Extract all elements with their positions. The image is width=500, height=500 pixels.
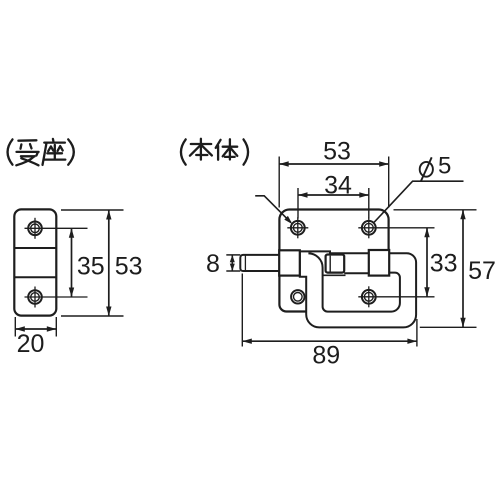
extension line hole bottom (35 dim)	[25, 296, 88, 298]
extension line 57 bottom	[420, 326, 477, 328]
extension line 89 left	[241, 274, 243, 347]
extension line 20 left	[14, 317, 16, 337]
paren right of ukeza	[68, 139, 74, 164]
kanji ZA (seat)	[43, 139, 66, 165]
leader line to top-left hole	[255, 196, 292, 224]
svg-text:8: 8	[206, 250, 220, 278]
extension line 20 right	[55, 317, 57, 337]
dimension line 53 top	[279, 161, 389, 166]
extension line bottom-right hole (33 dim bottom)	[358, 296, 434, 298]
phi symbol	[420, 157, 433, 181]
leader line phi5 to top-right hole	[374, 181, 463, 222]
dimension arrows 8	[230, 255, 235, 271]
dimension texts	[17, 138, 496, 370]
extension line 53 left	[278, 157, 280, 208]
handle ring outer	[300, 251, 416, 327]
handle ring opening	[308, 253, 400, 311]
svg-text:34: 34	[324, 172, 352, 200]
extension line plate top (53 dim)	[61, 209, 124, 211]
dimension line 20	[15, 326, 56, 331]
extension line plate bottom (53 dim)	[61, 315, 124, 317]
extension line 34 left	[297, 188, 299, 219]
svg-text:53: 53	[323, 138, 351, 166]
bolt clamp lower edge	[323, 274, 346, 276]
extension line 57 top	[394, 209, 477, 211]
extension line top-right hole (33 dim top)	[358, 227, 434, 229]
body hole top-right	[362, 217, 376, 238]
svg-text:89: 89	[312, 342, 340, 370]
svg-text:57: 57	[468, 257, 496, 285]
svg-text:5: 5	[438, 153, 451, 180]
extension line hole top (35 dim)	[25, 227, 88, 229]
catch plate outline	[14, 209, 56, 315]
paren left of hontai	[181, 139, 186, 164]
handle top bar bottom edge	[344, 272, 369, 274]
kanji HON (main)	[190, 139, 212, 160]
svg-text:20: 20	[17, 330, 45, 358]
knob inner line left	[329, 256, 331, 272]
paren right of hontai	[244, 139, 249, 164]
body hole bottom-right	[362, 286, 376, 307]
extension line 89 right	[416, 319, 418, 347]
knob on bolt	[326, 255, 345, 273]
tick line 8 dim top	[226, 254, 240, 256]
left guide block	[279, 250, 300, 275]
label (hontai) main body	[181, 139, 248, 165]
catch plate divider line lower	[14, 276, 56, 278]
dimension line 57	[460, 210, 465, 327]
kanji TAI (body)	[216, 139, 238, 159]
catch plate divider line upper	[14, 247, 56, 249]
body hole top-left	[287, 217, 308, 238]
extension line 53 right	[388, 157, 390, 208]
right guide block	[369, 250, 389, 276]
svg-text:53: 53	[115, 252, 143, 280]
paren left of ukeza	[8, 139, 13, 164]
label (ukeza) catch plate	[8, 139, 74, 165]
dimension line 53 left figure	[106, 210, 111, 316]
kanji JU (receive)	[16, 140, 38, 165]
dimension line 89	[242, 339, 417, 344]
bolt pin	[240, 255, 279, 271]
catch plate hole top	[28, 218, 42, 239]
body plate outline	[279, 210, 388, 312]
catch plate hole bottom	[28, 287, 42, 308]
body rivet hole bottom-left	[291, 290, 304, 303]
svg-text:33: 33	[430, 249, 458, 277]
extension line 34 right	[368, 188, 370, 219]
dimension line 34	[298, 192, 369, 197]
bolt tip chamfer line	[244, 256, 246, 271]
svg-text:35: 35	[77, 252, 105, 280]
tick line 8 dim bottom	[226, 270, 240, 272]
dimension line 33	[424, 228, 429, 297]
dimension line 35	[69, 228, 74, 297]
